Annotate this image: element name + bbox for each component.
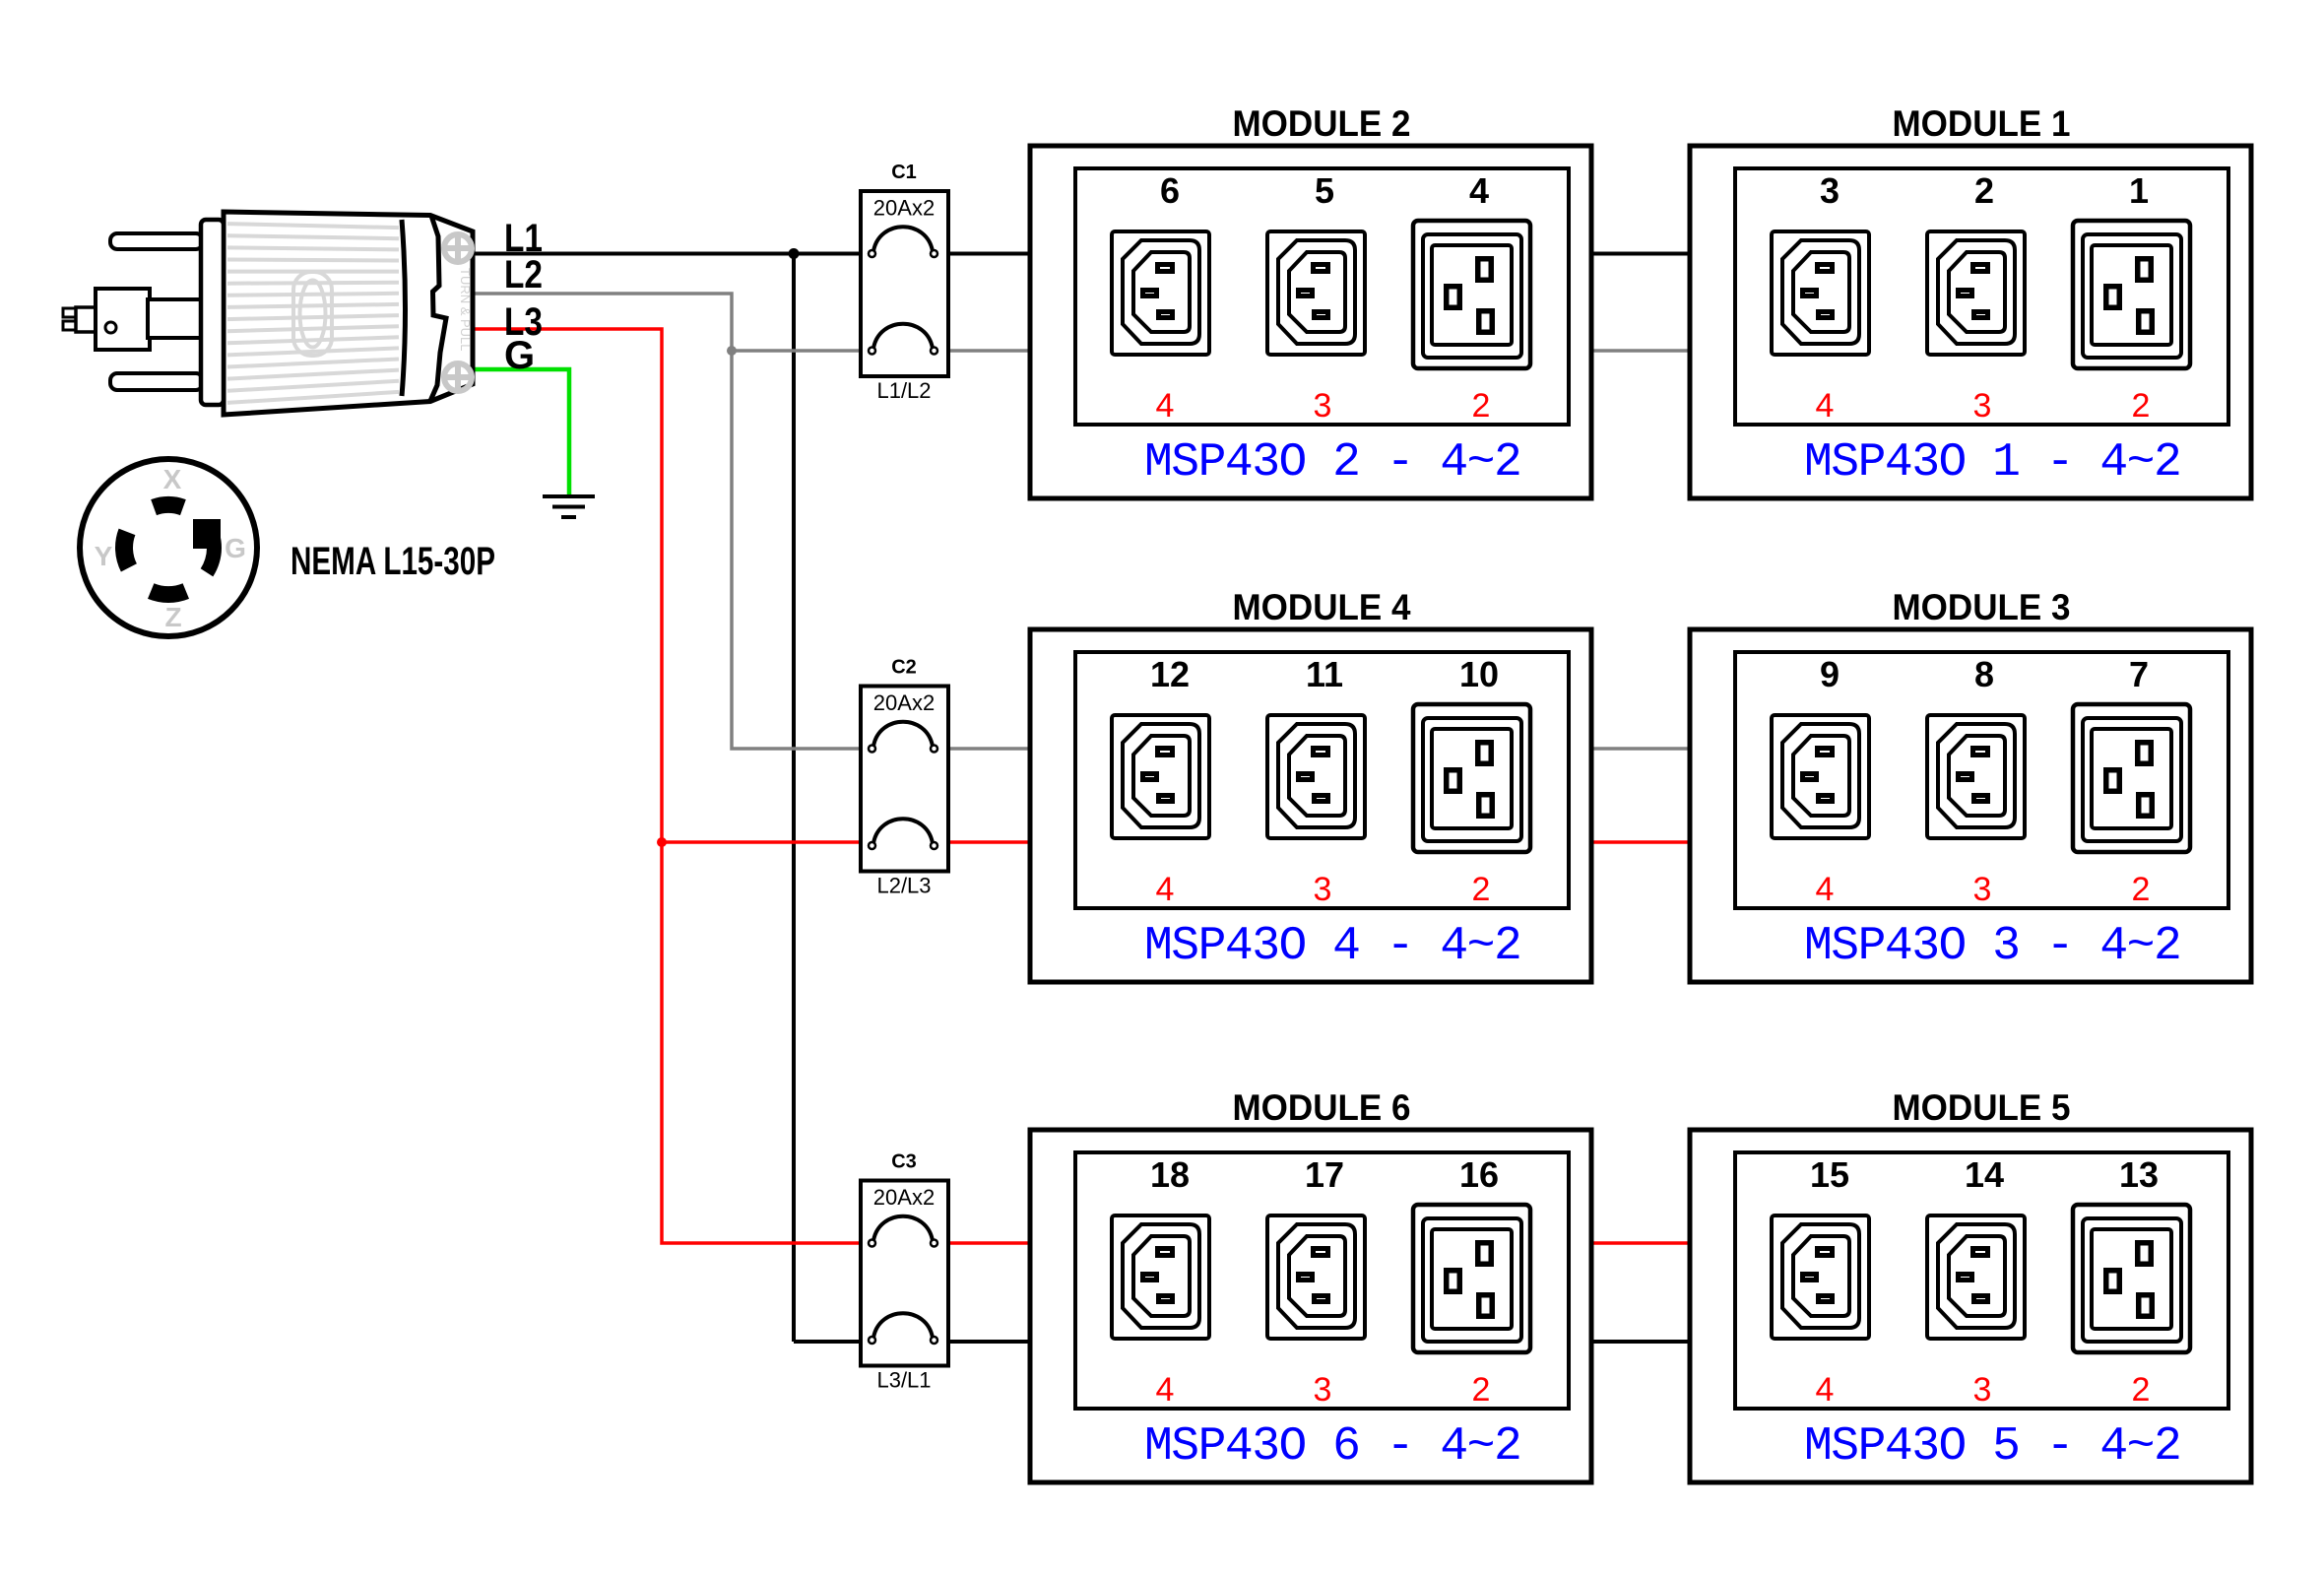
svg-text:3: 3 [1314, 387, 1332, 425]
svg-text:X: X [163, 464, 182, 494]
svg-text:4: 4 [1816, 871, 1835, 908]
svg-text:2: 2 [1472, 871, 1491, 908]
svg-text:2: 2 [2132, 387, 2151, 425]
svg-text:2: 2 [1472, 387, 1491, 425]
svg-text:1: 1 [2129, 170, 2149, 211]
svg-text:3: 3 [1973, 871, 1992, 908]
svg-text:7: 7 [2129, 654, 2149, 694]
svg-text:11: 11 [1306, 654, 1343, 694]
svg-text:TURN & PULL: TURN & PULL [458, 268, 473, 352]
svg-text:G: G [504, 334, 535, 377]
svg-text:2: 2 [1472, 1371, 1491, 1409]
svg-text:3: 3 [1973, 1371, 1992, 1409]
svg-text:3: 3 [1314, 871, 1332, 908]
svg-text:MODULE 3: MODULE 3 [1893, 587, 2071, 627]
svg-text:14: 14 [1965, 1154, 2004, 1195]
svg-text:MSP43O 5 - 4~2: MSP43O 5 - 4~2 [1804, 1420, 2180, 1474]
svg-text:5: 5 [1315, 170, 1334, 211]
svg-text:MODULE 5: MODULE 5 [1893, 1087, 2071, 1128]
svg-text:15: 15 [1810, 1154, 1849, 1195]
svg-text:C1: C1 [891, 162, 917, 183]
svg-text:3: 3 [1973, 387, 1992, 425]
svg-text:C2: C2 [891, 657, 917, 679]
svg-text:3: 3 [1820, 170, 1840, 211]
svg-text:MSP43O 6 - 4~2: MSP43O 6 - 4~2 [1144, 1420, 1520, 1474]
svg-text:4: 4 [1156, 387, 1175, 425]
svg-text:Y: Y [95, 541, 113, 571]
svg-text:L2/L3: L2/L3 [876, 874, 931, 898]
svg-text:4: 4 [1816, 1371, 1835, 1409]
svg-text:MSP43O 4 - 4~2: MSP43O 4 - 4~2 [1144, 920, 1520, 973]
svg-text:G: G [225, 533, 246, 563]
svg-text:4: 4 [1469, 170, 1489, 211]
svg-text:L2: L2 [504, 253, 543, 296]
svg-text:18: 18 [1150, 1154, 1190, 1195]
svg-text:3: 3 [1314, 1371, 1332, 1409]
svg-text:17: 17 [1305, 1154, 1344, 1195]
svg-text:4: 4 [1156, 1371, 1175, 1409]
svg-text:C3: C3 [891, 1151, 917, 1173]
svg-text:2: 2 [1974, 170, 1994, 211]
svg-text:6: 6 [1160, 170, 1180, 211]
svg-text:2: 2 [2132, 1371, 2151, 1409]
svg-text:L1/L2: L1/L2 [876, 378, 931, 403]
svg-text:Z: Z [164, 602, 181, 632]
svg-text:MSP43O 1 - 4~2: MSP43O 1 - 4~2 [1804, 436, 2180, 490]
svg-text:MODULE 6: MODULE 6 [1233, 1087, 1411, 1128]
svg-text:8: 8 [1974, 654, 1994, 694]
svg-text:16: 16 [1459, 1154, 1499, 1195]
svg-text:2: 2 [2132, 871, 2151, 908]
svg-text:L3/L1: L3/L1 [876, 1368, 931, 1393]
svg-text:20Ax2: 20Ax2 [873, 690, 935, 715]
svg-text:MSP43O 3 - 4~2: MSP43O 3 - 4~2 [1804, 920, 2180, 973]
svg-text:9: 9 [1820, 654, 1840, 694]
svg-text:10: 10 [1459, 654, 1499, 694]
svg-text:20Ax2: 20Ax2 [873, 1185, 935, 1210]
svg-text:13: 13 [2119, 1154, 2159, 1195]
svg-text:MODULE 4: MODULE 4 [1233, 587, 1411, 627]
svg-text:MSP43O 2 - 4~2: MSP43O 2 - 4~2 [1144, 436, 1520, 490]
svg-text:MODULE 2: MODULE 2 [1233, 103, 1411, 144]
svg-text:20Ax2: 20Ax2 [873, 196, 935, 221]
svg-text:4: 4 [1156, 871, 1175, 908]
svg-text:12: 12 [1150, 654, 1190, 694]
svg-text:NEMA L15-30P: NEMA L15-30P [290, 540, 495, 583]
svg-text:MODULE 1: MODULE 1 [1893, 103, 2071, 144]
svg-text:4: 4 [1816, 387, 1835, 425]
